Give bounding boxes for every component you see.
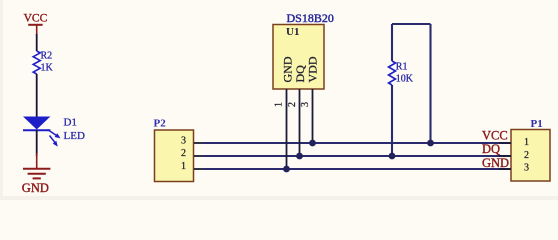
node U1.3 to VCC net [309,140,316,147]
wire R1 right branch to VCC net [429,24,431,143]
P1 pin 1 stub [499,142,511,144]
node R1 branch to VCC net [427,140,434,147]
wire net GND (P2.1 to P1.3) [204,168,511,170]
LED D1 [23,117,85,147]
connector P1 [511,118,550,181]
svg-text:2: 2 [524,150,529,161]
svg-text:DS18B20: DS18B20 [287,11,334,25]
svg-text:3: 3 [300,102,311,107]
P2 pin 1 stub [194,168,206,170]
ground [22,153,51,195]
P1 pin 3 stub [499,168,511,170]
svg-text:1: 1 [181,161,186,172]
svg-text:GND: GND [22,181,49,195]
svg-text:R1: R1 [396,61,408,72]
wire R1 top link [392,23,431,25]
node R1 to DQ net [389,153,396,160]
U1 pin 2 (DQ) [299,89,301,156]
U1 pin 3 (VDD) [312,89,314,143]
P2 pin 3 stub [194,142,206,144]
svg-text:3: 3 [524,163,529,174]
svg-text:10K: 10K [396,73,414,84]
svg-text:P1: P1 [531,118,543,130]
power symbol VCC [24,13,48,36]
IC U1 [273,11,334,89]
svg-text:VCC: VCC [482,128,508,142]
svg-text:D1: D1 [64,117,77,129]
svg-text:1: 1 [524,137,529,148]
wire R2 to D1 [36,74,38,117]
svg-text:VCC: VCC [24,13,48,25]
wire net DQ (P2.2 to P1.2) [204,155,511,157]
svg-text:GND: GND [482,156,509,170]
svg-text:1K: 1K [41,63,54,74]
wire R1 bottom to DQ net [391,85,393,156]
svg-text:DQ: DQ [482,142,500,156]
wire R1 top to zigzag [391,24,393,61]
svg-text:1: 1 [274,102,285,107]
U1 pin 1 (GND) [286,89,288,169]
connector P2 [154,118,194,182]
svg-text:2: 2 [181,148,186,159]
svg-text:VDD: VDD [306,56,320,82]
node U1.2 to DQ net [296,153,303,160]
wire net VCC (P2.3 to P1.1) [204,142,511,144]
resistor R2 [33,50,53,74]
wire VCC to R2 [36,34,38,51]
svg-text:U1: U1 [286,26,299,38]
svg-text:P2: P2 [154,118,167,130]
P1 pin 2 stub [499,155,511,157]
svg-text:R2: R2 [41,50,53,61]
P2 pin 2 stub [194,155,206,157]
svg-text:LED: LED [64,130,85,142]
wire D1 to ground [36,130,38,156]
resistor R1 [389,61,414,85]
svg-text:2: 2 [287,102,298,107]
svg-text:3: 3 [181,135,186,146]
node U1.1 to GND net [283,166,290,173]
